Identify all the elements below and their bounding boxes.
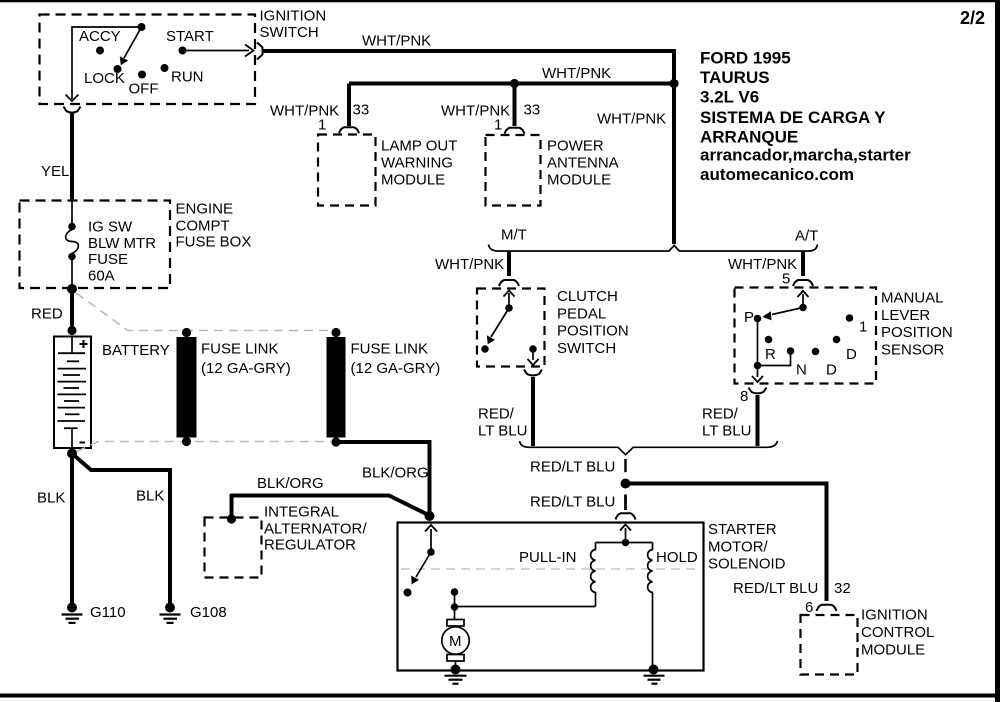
wire BLK/ORG alternator to solenoid	[232, 496, 430, 518]
harness dashed battery to fuse links top	[76, 293, 331, 331]
svg-text:R: R	[765, 346, 776, 363]
node mlps pivot	[799, 304, 807, 312]
node fuse box output	[67, 284, 77, 294]
ignition switch S1 box	[40, 15, 256, 105]
ground G110	[67, 603, 77, 613]
node junction power antenna branch	[510, 79, 519, 88]
svg-text:FUSE BOX: FUSE BOX	[176, 234, 252, 251]
svg-text:BLK/ORG: BLK/ORG	[362, 465, 429, 482]
svg-text:ENGINE: ENGINE	[176, 201, 234, 218]
wire RED/LT BLU to ignition control module	[628, 484, 827, 602]
node R contact	[765, 336, 773, 344]
manual lever position sensor box	[735, 288, 877, 384]
svg-text:REGULATOR: REGULATOR	[264, 537, 356, 554]
arrowhead down at ignition exit	[66, 95, 79, 102]
svg-text:N: N	[796, 362, 807, 379]
node clutch pivot	[505, 304, 513, 312]
wire START output with arrow	[187, 50, 250, 52]
node motor feed upper	[451, 588, 459, 596]
svg-text:arrancador,marcha,starter: arrancador,marcha,starter	[700, 146, 911, 165]
node motor feed lower	[451, 603, 459, 611]
wire RED/LT BLU from clutch	[531, 377, 535, 446]
hold coil L2	[648, 543, 653, 670]
svg-text:LOCK: LOCK	[84, 70, 125, 87]
integral alternator regulator box	[205, 518, 262, 578]
svg-text:LT BLU: LT BLU	[478, 423, 527, 440]
lamp out warning module box	[318, 135, 376, 206]
svg-text:RED/LT BLU: RED/LT BLU	[530, 494, 615, 511]
power antenna module box	[486, 135, 541, 206]
svg-text:CLUTCH: CLUTCH	[557, 288, 618, 305]
motor M1	[447, 620, 464, 627]
wire to power antenna module	[513, 84, 517, 127]
connector dome ignition control module	[817, 605, 837, 611]
svg-text:FUSE LINK: FUSE LINK	[201, 341, 279, 358]
solenoid internal dashed link	[401, 568, 698, 570]
svg-text:ANTENNA: ANTENNA	[547, 155, 619, 172]
svg-text:OFF: OFF	[129, 81, 159, 98]
node solenoid contact	[404, 589, 412, 597]
svg-text:MODULE: MODULE	[861, 641, 925, 658]
svg-text:BLW MTR: BLW MTR	[88, 235, 156, 252]
svg-text:SWITCH: SWITCH	[260, 24, 319, 41]
engine compt fuse box	[20, 201, 171, 289]
node OFF contact	[138, 71, 146, 79]
svg-text:(12 GA-GRY): (12 GA-GRY)	[201, 360, 291, 377]
wire junction to N contact	[758, 352, 791, 366]
svg-text:RED/: RED/	[702, 406, 739, 423]
svg-text:COMPT: COMPT	[176, 218, 230, 235]
svg-text:1: 1	[318, 117, 326, 134]
svg-text:M: M	[449, 633, 462, 650]
solenoid switch arm	[416, 552, 431, 577]
svg-text:6: 6	[805, 599, 813, 616]
svg-text:1: 1	[859, 319, 867, 336]
connector dome manual lever position sensor	[793, 280, 813, 286]
svg-text:WHT/PNK: WHT/PNK	[362, 33, 431, 50]
mlps arm to P	[772, 308, 803, 315]
svg-text:BLK: BLK	[37, 490, 65, 507]
svg-text:SOLENOID: SOLENOID	[708, 556, 786, 573]
wire P to output	[757, 320, 759, 366]
svg-text:ALTERNATOR/: ALTERNATOR/	[264, 521, 367, 538]
svg-text:LAMP OUT: LAMP OUT	[381, 138, 457, 155]
wire junction down to solenoid	[624, 495, 627, 511]
svg-text:POWER: POWER	[547, 138, 604, 155]
svg-text:WHT/PNK: WHT/PNK	[597, 111, 666, 128]
svg-text:BLK/ORG: BLK/ORG	[257, 475, 324, 492]
merge brace to starter	[520, 441, 778, 455]
svg-text:A/T: A/T	[795, 228, 818, 245]
svg-text:YEL: YEL	[41, 163, 69, 180]
mlps arrow up to pin	[802, 294, 804, 306]
connector dome lamp module	[339, 127, 359, 133]
border top	[0, 0, 1000, 2]
svg-text:ARRANQUE: ARRANQUE	[700, 128, 798, 147]
node D contact upper	[833, 336, 841, 344]
border right	[995, 0, 1000, 702]
pull-in coil L1	[591, 543, 596, 607]
fuse element squiggle	[66, 230, 79, 254]
node ignition pivot	[138, 23, 146, 31]
connector dome power antenna module	[505, 128, 525, 134]
wire WHT/PNK branch horizontal	[349, 82, 674, 86]
svg-text:SENSOR: SENSOR	[881, 341, 945, 358]
svg-text:G108: G108	[190, 604, 227, 621]
battery minus sign	[80, 442, 86, 444]
svg-text:POSITION: POSITION	[881, 324, 953, 341]
node fuse top	[68, 223, 76, 231]
wire BLK/ORG fuse link 2 to solenoid	[336, 442, 430, 514]
node clutch contact right	[529, 345, 537, 353]
clutch switch arm	[491, 308, 509, 337]
svg-text:D: D	[826, 362, 837, 379]
border bottom	[0, 694, 1000, 698]
svg-text:automecanico.com: automecanico.com	[700, 165, 854, 184]
node solenoid battery entry	[425, 511, 435, 521]
connector at ignition switch right edge	[257, 43, 263, 60]
svg-text:CONTROL: CONTROL	[861, 624, 934, 641]
svg-text:IGNITION: IGNITION	[861, 607, 928, 624]
node battery negative	[67, 449, 77, 459]
svg-text:M/T: M/T	[501, 227, 527, 244]
wire YEL ignition to fuse box	[70, 114, 74, 201]
fuse link 2	[327, 337, 346, 438]
svg-text:FUSE: FUSE	[88, 251, 128, 268]
wire pull-in return	[455, 606, 596, 608]
wire ignition feed internal	[72, 27, 142, 99]
svg-text:WHT/PNK: WHT/PNK	[270, 103, 339, 120]
svg-text:SWITCH: SWITCH	[557, 340, 616, 357]
node 1 contact	[846, 314, 854, 322]
svg-text:RED/: RED/	[478, 406, 515, 423]
switch arm to LOCK	[124, 27, 142, 58]
wire A/T drop WHT/PNK	[801, 252, 805, 277]
node merge junction	[621, 479, 631, 489]
starter motor solenoid box	[398, 523, 704, 671]
svg-text:ACCY: ACCY	[79, 28, 121, 45]
node fuse bottom	[68, 253, 76, 261]
connector dome starter solenoid	[616, 513, 636, 519]
svg-text:BATTERY: BATTERY	[102, 342, 170, 359]
node solenoid pivot	[427, 548, 435, 556]
svg-text:33: 33	[353, 102, 370, 119]
connector dome clutch switch	[499, 280, 519, 286]
ground G108	[165, 603, 175, 613]
svg-text:FORD 1995: FORD 1995	[700, 49, 791, 68]
svg-text:TAURUS: TAURUS	[700, 68, 770, 87]
fuse link 1	[177, 337, 197, 438]
svg-text:INTEGRAL: INTEGRAL	[264, 504, 339, 521]
svg-text:POSITION: POSITION	[557, 323, 629, 340]
svg-text:60A: 60A	[88, 268, 115, 285]
node fuse link 2 bottom	[331, 437, 340, 446]
connector socket below ignition switch	[64, 107, 81, 113]
connector socket below clutch switch	[524, 370, 542, 376]
svg-text:START: START	[166, 28, 214, 45]
node ACCY contact	[96, 47, 104, 55]
svg-text:MODULE: MODULE	[381, 172, 445, 189]
battery internal stub top	[71, 337, 73, 353]
battery	[54, 337, 91, 449]
svg-text:HOLD: HOLD	[656, 549, 698, 566]
clutch output arrow down	[532, 351, 534, 360]
battery plus sign	[80, 340, 88, 348]
svg-text:WHT/PNK: WHT/PNK	[435, 256, 504, 273]
svg-text:8: 8	[740, 388, 748, 405]
svg-text:5: 5	[782, 271, 790, 288]
svg-text:RED: RED	[31, 306, 63, 323]
split brace M/T A/T	[489, 245, 818, 252]
node D contact lower	[812, 348, 820, 356]
svg-text:D: D	[846, 346, 857, 363]
node P contact	[754, 315, 762, 323]
wire M/T drop WHT/PNK	[507, 252, 511, 277]
node fuse link 1 top	[182, 328, 191, 337]
svg-text:WHT/PNK: WHT/PNK	[542, 65, 611, 82]
wire RED to battery	[70, 289, 74, 331]
svg-text:1: 1	[494, 117, 502, 134]
solenoid feed arrow up	[625, 528, 627, 540]
wire BLK battery to G110	[70, 454, 74, 607]
svg-text:LEVER: LEVER	[881, 307, 930, 324]
svg-text:STARTER: STARTER	[708, 521, 777, 538]
svg-text:IG SW: IG SW	[88, 219, 133, 236]
merge tick	[624, 459, 626, 472]
svg-text:2/2: 2/2	[960, 8, 985, 28]
solenoid contact arrow up	[430, 529, 432, 551]
connector socket below mlps	[749, 388, 767, 394]
node coil feed junction	[622, 539, 630, 547]
svg-text:33: 33	[524, 102, 541, 119]
svg-text:LT BLU: LT BLU	[702, 423, 751, 440]
svg-text:IGNITION: IGNITION	[260, 8, 327, 25]
wire to lamp out warning module	[347, 84, 351, 127]
fuse 60A wire in	[71, 200, 73, 223]
clutch pedal position switch box	[477, 289, 545, 367]
svg-text:SISTEMA DE CARGA Y: SISTEMA DE CARGA Y	[700, 108, 886, 127]
battery plates	[58, 353, 87, 428]
wire BLK battery to G108	[72, 454, 170, 607]
node N contact	[787, 347, 795, 355]
svg-text:FUSE LINK: FUSE LINK	[351, 341, 429, 358]
svg-text:PEDAL: PEDAL	[557, 305, 606, 322]
node alternator pin	[227, 514, 236, 523]
svg-text:32: 32	[834, 580, 851, 597]
svg-text:MOTOR/: MOTOR/	[708, 538, 769, 555]
svg-text:(12 GA-GRY): (12 GA-GRY)	[351, 360, 441, 377]
fuse wire out	[71, 258, 73, 286]
svg-text:RED/LT BLU: RED/LT BLU	[530, 459, 615, 476]
mlps exit arrow down	[757, 369, 759, 377]
ground hold coil	[649, 665, 659, 675]
clutch switch arrow up to pin	[508, 293, 510, 307]
node battery positive	[67, 326, 76, 335]
svg-text:RED/LT BLU: RED/LT BLU	[733, 580, 818, 597]
svg-text:WARNING: WARNING	[381, 155, 453, 172]
node junction on vertical main	[669, 79, 678, 88]
svg-text:MODULE: MODULE	[547, 172, 611, 189]
harness dashed battery to fuse links bottom	[77, 442, 331, 452]
wire coil feed rail	[596, 542, 653, 544]
node START contact	[179, 47, 187, 55]
ground motor	[451, 665, 461, 675]
svg-text:PULL-IN: PULL-IN	[519, 549, 577, 566]
node clutch contact left	[481, 345, 489, 353]
svg-text:G110: G110	[90, 604, 126, 621]
svg-text:P: P	[744, 309, 754, 326]
node fuse link 2 top	[331, 328, 340, 337]
node fuse link 1 bottom	[182, 437, 191, 446]
wire WHT/PNK main from ignition switch	[262, 51, 674, 244]
node LOCK contact	[114, 65, 122, 73]
wire motor feed	[454, 592, 456, 620]
wire RED/LT BLU from mlps	[756, 395, 760, 446]
node RUN contact	[161, 64, 169, 72]
ignition control module box	[801, 615, 858, 675]
battery internal stub bottom	[71, 428, 73, 447]
svg-text:RUN: RUN	[171, 69, 204, 86]
svg-text:3.2L V6: 3.2L V6	[700, 88, 759, 107]
svg-text:BLK: BLK	[136, 488, 164, 505]
svg-text:MANUAL: MANUAL	[881, 290, 944, 307]
node mlps output junction	[754, 362, 762, 370]
